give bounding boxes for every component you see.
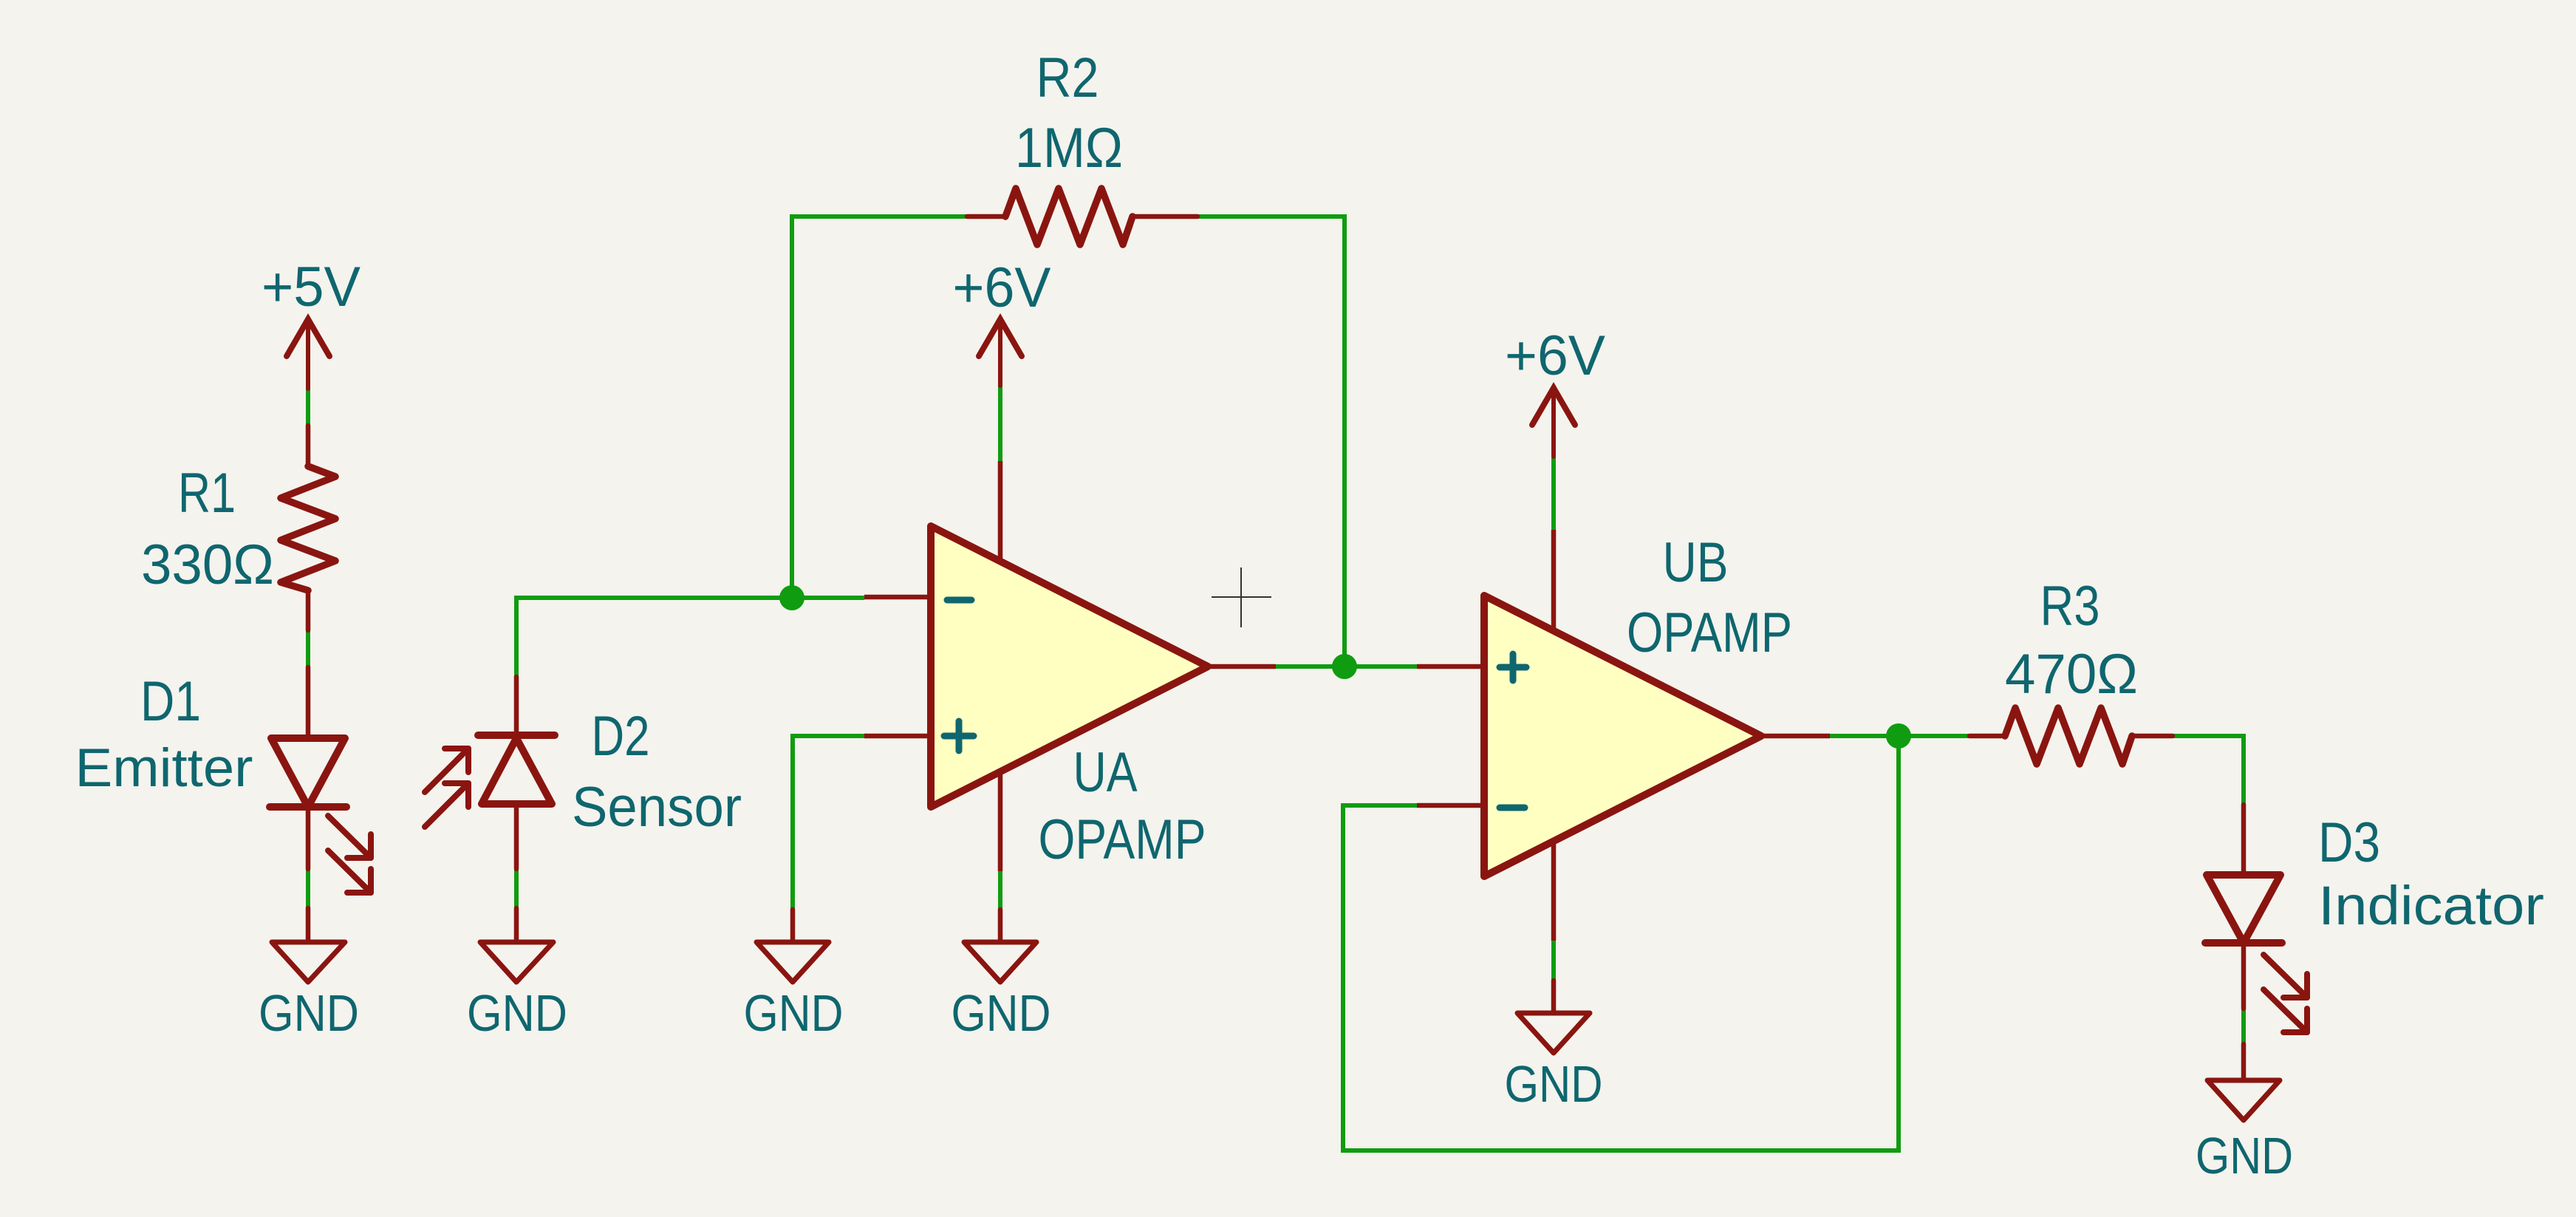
minus marker (1500, 805, 1525, 811)
svg-text:GND: GND (467, 984, 567, 1042)
svg-text:D1: D1 (140, 670, 201, 733)
pin + input (864, 734, 931, 739)
resistor R3 (1969, 708, 2173, 764)
pin + input (1417, 664, 1484, 669)
wire: UA noninverting input to ground (793, 736, 864, 910)
wire: UA output to UB noninverting input (1276, 664, 1417, 669)
wire: D1 to GND (306, 869, 310, 908)
svg-text:GND: GND (2196, 1127, 2293, 1184)
svg-text:Emitter: Emitter (75, 738, 253, 798)
ground below UA V- (964, 910, 1036, 982)
op-amp UA (864, 461, 1276, 871)
LED D1 (270, 667, 371, 893)
svg-text:+6V: +6V (1505, 324, 1605, 387)
wire: D3 to GND (2241, 1009, 2246, 1044)
ground below D1 (272, 908, 345, 982)
junction at UA inverting input (779, 585, 804, 610)
pin V- (1551, 841, 1557, 941)
ground below UB V- (1517, 981, 1590, 1053)
svg-text:OPAMP: OPAMP (1627, 601, 1792, 664)
wire: D2 top to UA inverting input (516, 598, 864, 677)
wire: +6V to UB V+ (1551, 457, 1556, 530)
ground below D3 (2207, 1044, 2280, 1120)
wire: UA V- to GND (998, 871, 1002, 910)
pin - input (1417, 803, 1484, 808)
svg-text:GND: GND (1505, 1055, 1603, 1113)
minus marker (947, 597, 971, 604)
power symbol +6V (UA) (979, 319, 1022, 386)
photodiode D2 (425, 677, 555, 869)
svg-text:330Ω: 330Ω (141, 533, 274, 596)
svg-text:Indicator: Indicator (2318, 875, 2544, 936)
svg-text:OPAMP: OPAMP (1039, 808, 1206, 871)
pin output (1208, 664, 1276, 669)
svg-text:R3: R3 (2040, 575, 2100, 638)
wire: +5V to R1 (306, 389, 310, 426)
pin V- (998, 771, 1003, 871)
svg-text:+6V: +6V (953, 256, 1051, 319)
resistor R1 (281, 426, 335, 630)
svg-text:UA: UA (1073, 741, 1138, 804)
plus marker (944, 721, 974, 751)
wire: +6V to UA V+ (998, 386, 1002, 461)
svg-text:1MΩ: 1MΩ (1015, 117, 1123, 180)
op-amp UB (1417, 530, 1830, 941)
svg-text:GND: GND (952, 984, 1051, 1042)
pin V+ (1551, 530, 1557, 631)
pin - input (864, 595, 931, 600)
svg-text:UB: UB (1663, 531, 1729, 594)
resistor R2 (967, 188, 1198, 245)
junction at UB output (1886, 723, 1911, 749)
wire: R2 right to UA output junction (1198, 217, 1345, 667)
svg-text:R2: R2 (1036, 47, 1099, 109)
junction at UA output (1332, 654, 1357, 679)
wire: UB output to R3 (1830, 734, 1969, 738)
wire: R2 feedback top-left horizontal (792, 217, 967, 598)
wire: R3 to D3 (2173, 736, 2244, 805)
svg-text:GND: GND (259, 984, 359, 1042)
LED D3 (2205, 805, 2307, 1032)
svg-text:GND: GND (744, 984, 844, 1042)
svg-text:D2: D2 (592, 705, 650, 768)
wire: UB feedback loop (1343, 736, 1899, 1150)
wire: UB V- to GND (1551, 941, 1556, 981)
svg-text:470Ω: 470Ω (2005, 643, 2138, 706)
svg-text:R1: R1 (178, 462, 236, 525)
pin output (1761, 734, 1830, 739)
svg-text:D3: D3 (2318, 811, 2380, 874)
wire: R1 to D1 (306, 630, 310, 667)
svg-text:+5V: +5V (262, 256, 361, 318)
symbol anchor crosshair (1212, 567, 1271, 627)
power symbol +5V (287, 319, 329, 389)
ground below D2 (480, 908, 553, 982)
svg-text:Sensor: Sensor (572, 776, 742, 839)
power symbol +6V (UB) (1532, 388, 1575, 457)
plus marker (1500, 654, 1526, 681)
wire: D2 to GND (514, 869, 519, 908)
ground below UA + input (756, 910, 829, 982)
pin V+ (998, 461, 1003, 562)
